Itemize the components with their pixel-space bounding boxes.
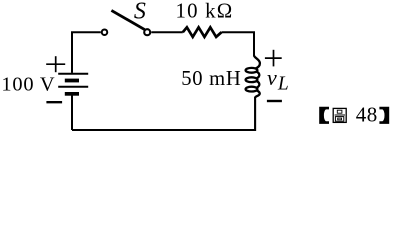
svg-text:50 mH: 50 mH [181,68,241,90]
圖 bottom box [335,117,343,122]
svg-text:L: L [277,74,289,95]
圖 middle horizontal stroke [335,114,345,116]
battery plate short thick (bottom) [65,92,79,96]
inductor coil loop 3 [246,87,258,92]
wire resistor to top-right corner, down to inductor [222,32,255,56]
圖 bottom inner rect [338,118,342,120]
wire inductor bottom to bottom-right corner and bottom run [72,97,255,130]
switch S blade [111,10,144,29]
wire switch to resistor [151,31,183,33]
battery plate long thin (top) [58,73,88,75]
battery plus sign horizontal [46,63,65,65]
inductor plus sign vertical [273,50,275,67]
inductor coil exit curve [255,91,260,98]
svg-text:v: v [267,65,277,90]
battery plate short thick [65,79,79,83]
caption right lenticular bracket [379,107,389,124]
inductor coil connector 1-2 [257,72,260,78]
svg-text:100 V: 100 V [1,74,55,96]
inductor minus sign [267,100,282,102]
wire battery bottom to bottom-left corner [71,95,73,130]
圖 inner top small box [337,110,342,113]
caption left lenticular bracket [319,107,329,124]
battery plus sign vertical [55,56,57,72]
svg-text:S: S [134,0,146,24]
inductor plus sign horizontal [265,57,282,59]
battery plate long thin [58,86,88,88]
svg-text:10 kΩ: 10 kΩ [176,0,234,23]
inductor L coil entry curve [254,56,260,69]
switch right terminal circle [144,29,150,35]
inductor coil loop 1 [246,68,258,73]
battery minus sign [46,101,62,103]
inductor coil connector 2-3 [257,81,260,87]
resistor R zigzag [183,27,222,37]
switch left terminal circle [102,29,108,35]
wire top-left segment (battery top to switch left terminal) [72,32,101,73]
svg-text:48: 48 [356,103,378,127]
inductor coil loop 2 [246,77,258,82]
caption character 圖 outer box [333,108,346,122]
